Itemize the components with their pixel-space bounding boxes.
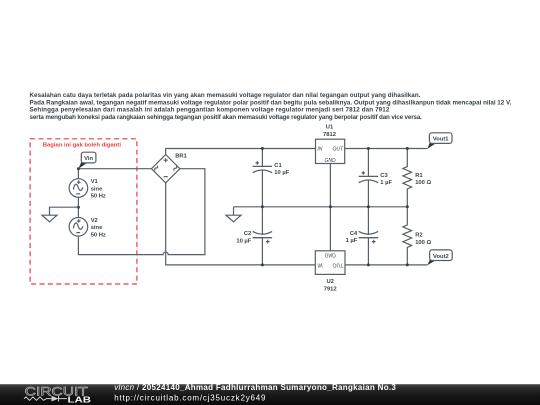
svg-text:BR1: BR1 bbox=[175, 154, 187, 160]
svg-text:10 µF: 10 µF bbox=[236, 238, 251, 244]
wire Vin node to BR1 left bbox=[78, 168, 151, 170]
svg-text:Vout2: Vout2 bbox=[433, 254, 449, 260]
svg-text:IN: IN bbox=[317, 262, 322, 268]
svg-text:U1: U1 bbox=[326, 125, 334, 131]
node dots top rail bbox=[261, 147, 264, 150]
net flag Vout2 bbox=[428, 250, 453, 265]
svg-text:Vin: Vin bbox=[84, 156, 93, 162]
svg-text:100 Ω: 100 Ω bbox=[415, 240, 431, 246]
svg-text:C4: C4 bbox=[350, 231, 358, 237]
svg-text:R1: R1 bbox=[415, 173, 423, 179]
svg-text:Pada Rangkaian awal, tegangan: Pada Rangkaian awal, tegangan negatif me… bbox=[30, 99, 512, 106]
net flag Vin bbox=[78, 152, 96, 169]
svg-text:U2: U2 bbox=[326, 279, 333, 285]
svg-text:vlncn / 20524140_Ahmad Fadhlur: vlncn / 20524140_Ahmad Fadhlurrahman Sum… bbox=[114, 383, 396, 392]
svg-text:sine: sine bbox=[91, 186, 103, 192]
svg-text:C1: C1 bbox=[274, 163, 282, 169]
voltage regulator U2 7912 bbox=[315, 251, 345, 292]
svg-text:GND: GND bbox=[325, 158, 337, 164]
voltage source V1 bbox=[69, 179, 106, 200]
resistor R1 bbox=[403, 149, 432, 207]
bridge rectifier BR1 bbox=[152, 154, 188, 183]
svg-text:Sehingga penyelesaian dari mas: Sehingga penyelesaian dari masalah ini a… bbox=[30, 107, 390, 114]
node dots bottom rail bbox=[261, 263, 264, 266]
svg-text:50 Hz: 50 Hz bbox=[91, 232, 106, 238]
svg-text:C2: C2 bbox=[244, 231, 251, 237]
footer bar bbox=[0, 383, 540, 405]
annotation box (red dashed region) bbox=[30, 139, 137, 284]
capacitor C3 bbox=[359, 149, 393, 207]
node between V1 V2 bbox=[77, 206, 80, 209]
svg-text:10 µF: 10 µF bbox=[274, 170, 289, 176]
wire U1 GND down through mid rail to U2 GND bbox=[329, 164, 331, 251]
svg-text:R2: R2 bbox=[415, 233, 422, 239]
resistor R2 bbox=[403, 207, 432, 265]
svg-text:1 µF: 1 µF bbox=[380, 180, 392, 186]
logo squiggle resistor bbox=[24, 397, 52, 400]
svg-text:http://circuitlab.com/cj35uczk: http://circuitlab.com/cj35uczk2y649 bbox=[114, 393, 266, 402]
wire BR1 + output up and top rail to U1 bbox=[166, 149, 316, 155]
ground G2 bbox=[226, 207, 241, 222]
svg-text:LAB: LAB bbox=[68, 395, 92, 405]
svg-text:7812: 7812 bbox=[323, 132, 336, 138]
wire BR1 - output down to bottom rail bbox=[166, 183, 316, 265]
node Vin bbox=[77, 167, 80, 170]
svg-text:IN: IN bbox=[317, 146, 322, 152]
net flag Vout1 bbox=[428, 133, 453, 149]
capacitor C4 bbox=[346, 207, 379, 265]
svg-text:Bagian ini gak boleh diganti: Bagian ini gak boleh diganti bbox=[43, 142, 122, 148]
wire U1 OUT to Vout1 bbox=[345, 148, 428, 150]
svg-text:OUT: OUT bbox=[332, 262, 344, 268]
svg-text:V2: V2 bbox=[91, 218, 98, 224]
svg-text:Kesalahan catu daya terletak p: Kesalahan catu daya terletak pada polari… bbox=[30, 92, 421, 99]
svg-text:C3: C3 bbox=[380, 173, 388, 179]
capacitor C2 bbox=[236, 207, 272, 265]
logo diode bbox=[52, 396, 59, 402]
svg-text:OUT: OUT bbox=[332, 146, 344, 152]
mid rail (ground rail) bbox=[234, 206, 408, 208]
voltage regulator U1 7812 bbox=[316, 125, 345, 165]
svg-text:1 µF: 1 µF bbox=[346, 238, 358, 244]
svg-text:Vout1: Vout1 bbox=[433, 137, 449, 143]
ground G1 bbox=[42, 207, 78, 222]
capacitor C1 bbox=[253, 149, 290, 207]
wire V2 bottom down and right with hop to BR1 right arm bbox=[78, 169, 204, 255]
svg-text:7912: 7912 bbox=[324, 286, 337, 292]
wire Vin node down to V1 bbox=[77, 169, 79, 179]
node dots mid rail bbox=[261, 205, 264, 208]
wire V1 to V2 bbox=[77, 197, 79, 217]
svg-text:GND: GND bbox=[325, 251, 337, 257]
svg-text:serta mengubah koneksi pada ra: serta mengubah koneksi pada rangkaian se… bbox=[30, 114, 423, 121]
wire U2 OUT to Vout2 bbox=[345, 264, 428, 266]
svg-text:100 Ω: 100 Ω bbox=[415, 180, 431, 186]
svg-text:sine: sine bbox=[91, 225, 103, 231]
voltage source V2 bbox=[69, 218, 106, 239]
svg-text:V1: V1 bbox=[91, 179, 99, 185]
svg-text:50 Hz: 50 Hz bbox=[91, 194, 106, 200]
